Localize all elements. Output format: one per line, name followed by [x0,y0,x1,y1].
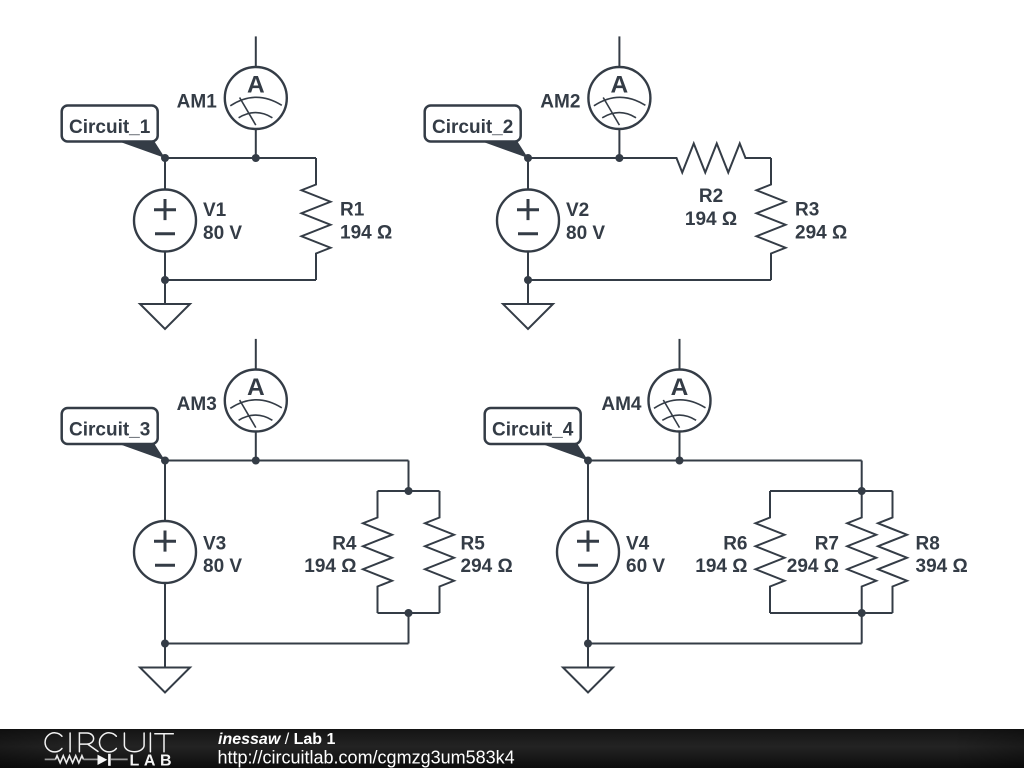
svg-text:80 V: 80 V [203,556,242,577]
junction dot parallel bottom c4 [858,609,866,617]
ammeter AM3 [225,370,287,432]
net tag Circuit_3 [62,408,165,461]
junction dot V2 bottom [524,276,532,284]
svg-text:60 V: 60 V [626,556,665,577]
svg-text:80 V: 80 V [566,223,605,244]
junction dot AM3/rail [252,457,260,465]
resistor R8 [878,491,907,613]
wire parallel bottom bus c3 [378,612,440,614]
label R7 294ohm [787,533,839,577]
junction dot V1 bottom [161,276,169,284]
svg-text:A: A [611,71,629,98]
svg-text:AM2: AM2 [540,92,580,113]
net tag Circuit_2 [425,106,528,159]
ammeter AM2 [588,67,650,129]
svg-text:294 Ω: 294 Ω [787,556,839,577]
node dot Circuit_1 net [161,154,169,162]
ammeter AM1 [225,67,287,129]
svg-text:V1: V1 [203,200,227,221]
resistor R6 [756,491,785,613]
svg-text:Circuit_2: Circuit_2 [432,117,513,138]
svg-text:AM3: AM3 [177,394,217,415]
label R6 194ohm [695,533,747,577]
footer black bar [0,729,1024,768]
label R5 294ohm [461,533,513,577]
svg-text:V2: V2 [566,200,589,221]
net tag Circuit_4 [485,408,588,461]
junction dot V3 bottom [161,640,169,648]
node dot Circuit_4 net [584,457,592,465]
wire top rail circuit 1 [165,157,316,159]
svg-text:V3: V3 [203,533,226,554]
wire AM1 to top rail [255,129,257,158]
junction dot parallel top c4 [858,487,866,495]
wire parallel bottom bus c4 [770,612,893,614]
label V1 80V [203,200,242,244]
wire top rail circuit 3 [165,460,409,462]
net tag Circuit_1 [62,106,165,159]
svg-text:A: A [247,71,265,98]
wire V2 bottom stub [527,252,529,281]
svg-text:R7: R7 [815,533,839,554]
svg-text:Circuit_4: Circuit_4 [492,420,574,441]
svg-text:R1: R1 [340,200,365,221]
wire V1 top stub [164,158,166,190]
wire AM3 to top rail [255,432,257,461]
svg-text:R8: R8 [916,533,940,554]
CircuitLab logo: resistor-diode squiggle [45,754,128,766]
svg-text:R2: R2 [699,186,723,207]
label R1 194ohm [340,200,392,244]
svg-text:R5: R5 [461,533,486,554]
node dot Circuit_2 net [524,154,532,162]
label R2 194ohm [685,186,737,230]
svg-text:V4: V4 [626,533,650,554]
svg-text:LAB: LAB [130,753,177,768]
wire V3 bottom stub [164,583,166,644]
voltage source V2 [497,190,559,252]
svg-text:R3: R3 [795,200,819,221]
label V3 80V [203,533,242,577]
wire parallel top bus c4 [770,490,893,492]
wire parallel top bus c3 [378,490,440,492]
wire AM4 to top rail [679,432,681,461]
svg-text:AM4: AM4 [601,394,642,415]
wire V1 bottom stub [164,252,166,281]
resistor R1 [302,158,331,280]
junction dot parallel bottom c3 [405,609,413,617]
svg-text:194 Ω: 194 Ω [695,556,747,577]
wire bottom rail circuit 2 [528,279,771,281]
resistor R3 [757,158,786,280]
svg-text:R6: R6 [723,533,747,554]
svg-text:80 V: 80 V [203,223,242,244]
wire bottom rail circuit 1 [165,279,316,281]
wire bottom rail circuit 4 [588,643,862,645]
svg-text:394 Ω: 394 Ω [916,556,968,577]
svg-text:http://circuitlab.com/cgmzg3um: http://circuitlab.com/cgmzg3um583k4 [218,748,515,768]
ground circuit 1 [140,280,190,329]
junction dot AM4/rail [676,457,684,465]
label R4 194ohm [304,533,357,577]
voltage source V4 [557,521,619,583]
svg-text:194 Ω: 194 Ω [304,556,356,577]
wire AM2 to top rail [618,129,620,158]
wire drop to parallel top bus [408,461,410,492]
ground circuit 3 [140,644,190,693]
svg-text:294 Ω: 294 Ω [461,556,513,577]
wire AM4 top lead [679,339,681,370]
wire bottom rail circuit 3 [165,643,409,645]
voltage source V3 [134,521,196,583]
ammeter AM4 [649,370,711,432]
svg-text:294 Ω: 294 Ω [795,222,847,243]
wire V4 top stub [587,461,589,522]
resistor R2 [651,144,771,173]
resistor R5 [425,491,454,613]
wire V2 top stub [527,158,529,190]
wire drop from parallel bottom bus [408,613,410,644]
CircuitLab logo: CIRCUIT wordmark [45,733,173,752]
junction dot AM1/rail [252,154,260,162]
svg-text:inessaw / Lab 1: inessaw / Lab 1 [218,731,336,748]
svg-text:A: A [247,374,265,401]
wire drop from parallel bottom bus c4 [861,613,863,644]
wire drop to parallel top bus c4 [861,461,863,492]
svg-text:AM1: AM1 [177,92,218,113]
junction dot parallel top c3 [405,487,413,495]
svg-text:194 Ω: 194 Ω [340,222,392,243]
resistor R7 [847,491,876,613]
wire V4 bottom stub [587,583,589,644]
ground circuit 2 [503,280,553,329]
svg-text:R4: R4 [332,533,357,554]
svg-text:Circuit_1: Circuit_1 [69,117,151,138]
footer bar edge vignette [0,729,1024,768]
voltage source V1 [134,190,196,252]
label V4 60V [626,533,665,577]
svg-text:A: A [671,374,689,401]
svg-text:Circuit_3: Circuit_3 [69,420,150,441]
label R8 394ohm [916,533,968,577]
label V2 80V [566,200,605,244]
wire AM3 top lead [255,339,257,370]
wire top rail circuit 2 [528,157,651,159]
node dot Circuit_3 net [161,457,169,465]
ground circuit 4 [563,644,613,693]
wire AM1 top lead [255,36,257,67]
label R3 294ohm [795,200,847,244]
resistor R4 [363,491,392,613]
svg-text:194 Ω: 194 Ω [685,209,737,230]
junction dot V4 bottom [584,640,592,648]
wire V3 top stub [164,461,166,522]
wire top rail circuit 4 [588,460,862,462]
wire AM2 top lead [618,36,620,67]
junction dot AM2/rail [615,154,623,162]
